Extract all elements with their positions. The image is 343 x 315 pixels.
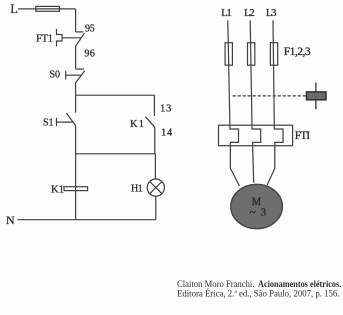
svg-text:95: 95 [85,24,95,35]
FT1 actuator symbol [57,29,63,47]
svg-text:96: 96 [84,49,94,60]
svg-text:L1: L1 [221,8,232,19]
contact S1 (NO pushbutton) blade [66,113,75,125]
wire S1 to bottom junction [75,126,77,154]
contact S0 blade [76,71,85,83]
wire phase L3 [273,20,274,125]
wire H1 to N rail [155,196,157,220]
wire phase L1 [228,20,230,125]
FT1 actuator link [62,37,81,39]
contact K1 13-14 (NO) blade [146,117,155,128]
svg-text:Acionamentos elétricos.: Acionamentos elétricos. [258,279,341,289]
svg-text:S1: S1 [43,118,54,129]
svg-text:H1: H1 [131,184,143,195]
motor M1 body [231,184,283,228]
S1 actuator link [57,121,74,123]
S0 actuator bar [65,71,67,80]
trip device stem [315,83,317,110]
svg-text:14: 14 [161,127,172,138]
coil K1 [64,187,88,191]
wire junction top horizontal [76,94,155,96]
svg-text:Claiton Moro Franchi.: Claiton Moro Franchi. [177,279,255,289]
contact S0 (NC pushbutton) fixed tick [76,68,85,70]
wire right branch down to K1 contact [153,95,155,116]
fuse F1 [225,43,232,65]
svg-text:F1,2,3: F1,2,3 [284,46,311,58]
wire FT1 to S0 [75,46,77,69]
svg-text:FT1: FT1 [36,34,53,45]
overload relay FTI box [219,125,293,146]
wire phase 2 to motor [253,146,254,183]
wire down through K1 coil to N rail [75,154,77,220]
wire N rail [17,219,156,221]
svg-text:N: N [6,213,15,227]
wire phase 3 to motor [267,146,275,185]
wire phase 1 to motor [230,146,239,186]
lamp H1 circle [147,179,164,196]
heater element phase 3 [274,125,283,146]
svg-text:L3: L3 [266,8,277,19]
contact FT1 (NC) fixed tick [76,31,84,33]
wire S0 to junction [75,83,77,95]
svg-text:L: L [10,2,18,16]
svg-text:L2: L2 [244,8,255,19]
fuse F2 [248,43,255,65]
heater element phase 1 [230,125,239,146]
svg-text:K1: K1 [130,119,144,130]
heater element phase 2 [252,125,261,146]
svg-text:~ 3: ~ 3 [250,207,267,219]
contact FT1 (NC) blade [76,33,85,46]
fuse F (control circuit) [36,6,60,11]
lamp H1 cross [150,182,162,194]
fuse F3 [270,43,277,65]
wire junction bottom horizontal [76,153,156,155]
wire phase L2 [250,20,252,125]
S1 actuator bar [56,118,58,127]
linkage dashed line [233,95,306,97]
svg-text:K1: K1 [51,185,64,196]
svg-text:Editora Érica, 2.ª ed., São Pa: Editora Érica, 2.ª ed., São Paulo, 2007,… [177,289,339,299]
wire L to fuse and across to corner [18,8,76,10]
svg-text:13: 13 [160,104,171,115]
wire down to H1 lamp [154,154,156,179]
wire vertical down to FT1 contact [75,9,77,32]
wire left branch to S1 [75,95,77,113]
wire K1 contact to bottom junction [154,127,156,154]
svg-text:S0: S0 [50,70,61,81]
svg-text:FTI: FTI [295,130,310,142]
trip device filled rectangle [307,92,327,100]
S0 actuator link [66,74,81,76]
